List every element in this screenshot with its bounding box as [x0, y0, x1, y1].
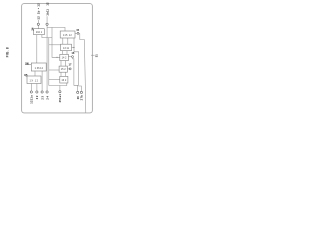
svg-text:14 2: 14 2 [62, 57, 67, 60]
svg-text:115 12: 115 12 [63, 34, 73, 37]
svg-text:22: 22 [35, 95, 39, 99]
svg-text:1X 12: 1X 12 [29, 79, 38, 82]
svg-text:1 36 12: 1 36 12 [35, 67, 44, 70]
svg-text:12: 12 [45, 2, 49, 6]
svg-text:26: 26 [76, 96, 80, 99]
svg-text:1b: 1b [37, 11, 41, 15]
svg-text:35: 35 [24, 73, 28, 77]
svg-text:12: 12 [37, 3, 41, 7]
svg-text:FIG. 8: FIG. 8 [6, 47, 10, 57]
svg-text:210 1: 210 1 [36, 31, 43, 34]
svg-text:1211a: 1211a [30, 95, 34, 104]
svg-text:34: 34 [31, 27, 35, 30]
svg-text:31: 31 [94, 54, 98, 57]
svg-text:1b11: 1b11 [45, 9, 49, 16]
svg-text:16 2: 16 2 [61, 79, 66, 82]
svg-text:23: 23 [40, 95, 44, 99]
svg-text:251a1: 251a1 [58, 94, 62, 103]
svg-text:17: 17 [69, 62, 72, 66]
svg-text:12: 12 [37, 16, 41, 20]
svg-text:13 11: 13 11 [63, 47, 70, 50]
svg-text:15 2: 15 2 [61, 68, 66, 71]
svg-text:24: 24 [45, 95, 49, 99]
svg-text:36: 36 [25, 62, 29, 66]
svg-text:15: 15 [76, 28, 79, 32]
svg-text:16: 16 [71, 51, 74, 55]
svg-text:27b: 27b [80, 95, 84, 101]
